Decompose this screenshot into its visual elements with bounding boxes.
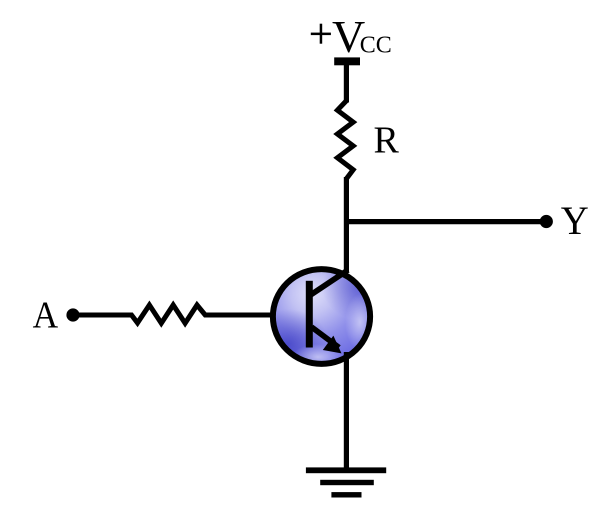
svg-text:CC: CC — [360, 32, 392, 58]
svg-text:R: R — [374, 119, 400, 161]
svg-text:A: A — [33, 293, 59, 335]
svg-text:Y: Y — [561, 199, 589, 244]
